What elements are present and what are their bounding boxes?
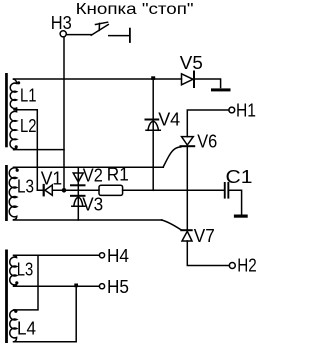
junction dot V1 row (62, 188, 67, 193)
resistor R1 (99, 185, 123, 195)
winding L1 (10, 79, 16, 108)
core of transformer T1 middle (5, 165, 8, 221)
terminal H3 (60, 31, 66, 37)
thyristor V6 cathode bar (181, 145, 195, 147)
terminal H5 (99, 284, 104, 289)
svg-text:Н1: Н1 (236, 100, 256, 121)
svg-text:L4: L4 (17, 318, 36, 339)
diode V5 cathode bar (193, 72, 195, 88)
svg-text:V6: V6 (197, 131, 217, 152)
diode V3 cathode bar (71, 195, 85, 197)
wire L3 top to H4 (14, 254, 99, 256)
winding L3 upper (9, 167, 17, 220)
terminal H1 (229, 107, 235, 113)
diode V4 (zener up) (146, 121, 160, 130)
ground chassis after V5 (211, 88, 231, 91)
switch fixed contact wire (109, 35, 130, 37)
thyristor V7 cathode bar (181, 229, 191, 231)
wire C1 to ground (229, 190, 241, 214)
switch fixed contact bar (129, 29, 131, 42)
wire H1 to V6 anode (187, 110, 229, 137)
svg-text:V7: V7 (194, 225, 215, 246)
thyristor V7 gate (162, 220, 182, 230)
thyristor V7 triangle (182, 231, 192, 241)
capacitor C1 right plate (227, 182, 229, 199)
winding L2 (10, 108, 17, 150)
ground chassis after C1 (234, 215, 248, 218)
junction dot H5 line (74, 284, 78, 288)
wire V2 V3 branch (77, 167, 79, 220)
svg-text:V1: V1 (41, 167, 63, 188)
junction node at V4 branch (151, 76, 155, 80)
polarity dot L2 (15, 145, 18, 148)
wire V5 cathode to ground (194, 79, 221, 88)
diode V1 cathode bar (43, 185, 45, 195)
svg-text:Н5: Н5 (107, 276, 129, 297)
svg-text:L3: L3 (17, 259, 34, 280)
polarity dot L1 (17, 81, 20, 84)
svg-text:V4: V4 (158, 109, 180, 130)
svg-text:Н3: Н3 (51, 12, 72, 33)
terminal H4 (99, 253, 104, 258)
switch actuator cap (96, 22, 108, 24)
wire L3 bottom bus to V7 gate (14, 219, 163, 221)
wire V6 cathode down through row to V7 (186, 146, 188, 230)
wire H3 down to L2 bottom (63, 37, 65, 190)
diode V4 cathode bar (146, 119, 159, 121)
svg-text:V5: V5 (180, 52, 203, 73)
svg-text:L3: L3 (17, 176, 34, 197)
svg-text:L1: L1 (20, 85, 37, 106)
wire L1 top bus to V5 (14, 78, 182, 80)
polarity dot L3 (16, 169, 19, 172)
svg-text:Кнопка "стоп": Кнопка "стоп" (76, 1, 194, 18)
wire H4 line to L4 top (15, 255, 39, 310)
diode V1 triangle (45, 185, 52, 195)
core of transformer T2 bottom (5, 250, 8, 344)
polarity dot L3 bottom (15, 281, 18, 284)
wire L2 bottom to H3 line (14, 149, 64, 151)
main row wire L-tap to C1 (37, 189, 224, 191)
svg-text:V3: V3 (82, 193, 103, 214)
svg-text:C1: C1 (226, 166, 253, 187)
thyristor V6 triangle (182, 137, 194, 145)
switch SB lever (91, 25, 108, 36)
svg-text:R1: R1 (107, 164, 129, 185)
thyristor V6 gate (163, 147, 181, 167)
wire from H3 to switch pivot (66, 34, 91, 36)
diode V2 cathode bar (71, 184, 85, 186)
wire L4 bottom to H5 junction (14, 286, 76, 342)
wire V4 branch vertical (152, 79, 154, 190)
capacitor C1 left plate (224, 182, 226, 199)
wire L3 top bus to V6 gate (15, 166, 164, 168)
terminal H2 (229, 263, 235, 269)
polarity dot L4 (14, 310, 17, 313)
diode V5 (182, 74, 194, 85)
wire L1-L2 tap (14, 110, 37, 191)
svg-text:Н2: Н2 (237, 254, 256, 275)
svg-text:Н4: Н4 (107, 245, 129, 266)
core of transformer T1 upper (5, 73, 8, 147)
diode V3 triangle (72, 197, 85, 206)
switch actuator stem (98, 23, 100, 30)
wire L3 bottom to H5 (14, 285, 99, 287)
winding L3 bottom (10, 255, 17, 286)
diode V2 triangle (73, 173, 83, 182)
svg-text:V2: V2 (83, 164, 103, 185)
winding L4 (10, 310, 17, 342)
wire V7 to H2 (187, 241, 229, 266)
svg-text:L2: L2 (20, 115, 37, 136)
